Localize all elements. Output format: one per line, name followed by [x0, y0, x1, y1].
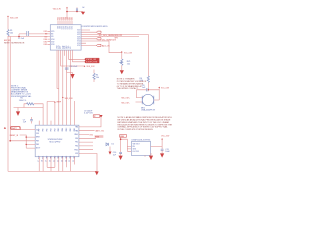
bottom ground rail wire — [8, 170, 97, 172]
svg-text:I2C_SDA/IO23: I2C_SDA/IO23 — [102, 39, 117, 42]
svg-text:TP: TP — [94, 116, 97, 118]
svg-text:LDO 3V3: LDO 3V3 — [133, 151, 139, 153]
svg-text:IO25: IO25 — [51, 31, 54, 33]
svg-text:BUZZER_PWM: BUZZER_PWM — [86, 61, 98, 63]
svg-text:RX2: RX2 — [90, 134, 93, 136]
svg-text:PB3: PB3 — [54, 128, 56, 131]
svg-text:VSS: VSS — [75, 153, 78, 155]
svg-text:VDD_3.3V: VDD_3.3V — [87, 66, 96, 68]
power flag VCC_3.3V (reg out) — [161, 136, 170, 140]
svg-text:PB9: PB9 — [36, 140, 39, 142]
net label STATUS_LED — [85, 58, 100, 61]
wire flag to R1 — [7, 17, 9, 30]
highlighted net PWM — [95, 135, 104, 138]
note 3 text block — [118, 116, 173, 131]
svg-text:17: 17 — [38, 160, 40, 162]
svg-text:IO27: IO27 — [77, 39, 80, 41]
svg-text:C5 1uF: C5 1uF — [18, 38, 25, 40]
U1 top pin names (inside, rotated) — [58, 26, 74, 29]
svg-text:THE WIPER CONTACT.: THE WIPER CONTACT. — [117, 87, 139, 90]
IC U2 (MCU QFP) — [35, 125, 79, 157]
U1 left pin names (inside) — [51, 31, 54, 46]
svg-text:VCC_3.3V: VCC_3.3V — [161, 136, 170, 138]
svg-text:MIC_OUT-: MIC_OUT- — [122, 102, 130, 104]
resistor R1 — [7, 30, 13, 37]
ground (top right of U1) — [81, 12, 85, 15]
U2 top long wires — [39, 101, 74, 125]
svg-text:21: 21 — [54, 160, 56, 162]
svg-text:IO10: IO10 — [62, 45, 64, 48]
svg-text:10k: 10k — [96, 77, 99, 79]
svg-text:IO17: IO17 — [68, 26, 70, 29]
svg-text:RESET SUPERVISOR: RESET SUPERVISOR — [4, 42, 25, 44]
U1 top pin wires — [58, 21, 72, 25]
svg-text:IO23: IO23 — [77, 32, 80, 34]
junction node EN — [18, 36, 20, 38]
svg-text:PB4: PB4 — [50, 128, 52, 131]
power flag VDD_3.3V (mid) — [84, 65, 96, 68]
svg-text:MIC_OUT+: MIC_OUT+ — [122, 97, 131, 99]
svg-text:IO14: IO14 — [77, 41, 80, 43]
svg-text:U1 ESP32-WROOM-32D MOD.: U1 ESP32-WROOM-32D MOD. — [81, 26, 108, 28]
wire R1 to EN node — [8, 34, 48, 37]
svg-text:VCC_3.3V: VCC_3.3V — [124, 52, 133, 54]
left rail B — [10, 37, 35, 141]
svg-text:10uF: 10uF — [165, 151, 170, 153]
svg-text:IO26: IO26 — [77, 36, 80, 38]
U1 left pin wires — [48, 31, 51, 44]
svg-text:1uF: 1uF — [82, 7, 85, 9]
wire sense rail — [14, 104, 44, 108]
svg-text:IO16: IO16 — [70, 26, 72, 29]
svg-text:VREF: VREF — [56, 101, 61, 103]
net label I2C_SCL — [97, 31, 102, 33]
wire VBAT down — [121, 137, 132, 152]
ground (C11) — [160, 153, 164, 157]
svg-text:VDD_3.3V: VDD_3.3V — [10, 18, 19, 20]
left rail A — [7, 37, 9, 172]
svg-text:I2C_SCL_SENSOR/IO22: I2C_SCL_SENSOR/IO22 — [99, 35, 123, 37]
svg-text:IO5: IO5 — [70, 46, 72, 49]
svg-text:IO9: IO9 — [60, 46, 62, 49]
U1 top pin net labels — [58, 16, 74, 20]
svg-text:IO19: IO19 — [64, 26, 66, 29]
ground (U3 gnd pin) — [145, 153, 153, 160]
power flag VDD_3.3V (left EN circuit) — [7, 16, 19, 20]
power flag VCC_3.3V (trimmer) — [121, 51, 133, 54]
capacitor C8 (series, mic rail) — [136, 82, 159, 91]
svg-text:IO22: IO22 — [77, 30, 80, 32]
op IC U1 (ESP32 module) — [50, 25, 81, 50]
svg-text:24: 24 — [65, 160, 67, 162]
svg-text:MCU QFP32: MCU QFP32 — [50, 141, 61, 143]
svg-text:IO11: IO11 — [64, 45, 66, 48]
svg-text:IO33: IO33 — [51, 44, 54, 46]
reg output wire — [151, 140, 163, 150]
svg-text:IO0: IO0 — [51, 36, 54, 38]
svg-text:3V3: 3V3 — [58, 26, 60, 29]
ground (mid bus) — [70, 74, 74, 79]
svg-text:IO13: IO13 — [58, 45, 60, 48]
U1 right pin names (inside) — [77, 30, 80, 47]
microphone MK1 — [141, 94, 155, 111]
U2 right pin wires — [79, 118, 101, 172]
mic left/right lead wires — [136, 90, 160, 102]
svg-text:18: 18 — [42, 160, 44, 162]
junction dots — [9, 11, 149, 145]
U1 bottom pin names (inside, rotated) — [57, 45, 73, 49]
wire to trimmer wiper — [109, 41, 122, 53]
svg-text:PB10: PB10 — [74, 149, 78, 151]
svg-text:25: 25 — [69, 160, 71, 162]
svg-text:UART_TX2: UART_TX2 — [95, 130, 104, 133]
svg-text:U3 AP2112K-3.3TRG1: U3 AP2112K-3.3TRG1 — [131, 138, 150, 141]
svg-text:26: 26 — [73, 160, 75, 162]
net label VBATT (U2 left pin 1) — [11, 127, 21, 130]
U2 bottom pin wires — [39, 157, 74, 172]
svg-text:PWM: PWM — [95, 136, 100, 138]
svg-text:PB1: PB1 — [75, 142, 78, 144]
svg-text:19: 19 — [46, 160, 48, 162]
svg-text:NRST: NRST — [36, 137, 40, 139]
note 1 text block — [11, 85, 32, 98]
power flag (rail A tap) — [4, 127, 6, 129]
power flag VCC_3.3V (mic) — [158, 87, 169, 90]
svg-text:PB6: PB6 — [43, 128, 45, 131]
svg-text:D1: D1 — [112, 144, 114, 146]
U1 right pin wires — [81, 30, 148, 45]
svg-text:PB5: PB5 — [47, 128, 49, 131]
U1 bottom bus wires — [57, 50, 85, 125]
net label VBAT — [120, 135, 127, 138]
svg-text:1uF: 1uF — [142, 87, 146, 89]
svg-text:3V3: 3V3 — [60, 26, 62, 29]
resistor R6 (mic bias) — [140, 76, 150, 82]
svg-text:IO15: IO15 — [72, 17, 74, 21]
resistor R5 — [19, 98, 34, 105]
U2 right pin names (inside) — [74, 126, 78, 156]
svg-text:PC0: PC0 — [39, 156, 41, 159]
svg-text:100k 1%: 100k 1% — [19, 100, 27, 102]
capacitor C1 — [76, 7, 84, 12]
net label I2C_SDA — [97, 38, 117, 42]
svg-text:IO15: IO15 — [72, 26, 74, 29]
svg-text:PC1: PC1 — [43, 156, 45, 159]
U1 left pin net labels — [44, 31, 48, 46]
note 2 text block — [117, 78, 147, 90]
svg-text:VCC_3.3V: VCC_3.3V — [161, 87, 170, 89]
ground (C10) — [119, 156, 123, 160]
svg-text:20: 20 — [50, 160, 52, 162]
U2 left pin wires — [20, 129, 36, 148]
svg-text:1uF: 1uF — [113, 154, 117, 156]
U2 bottom pin names (inside) — [39, 156, 76, 159]
capacitor C5 (series on IO0 line) — [18, 31, 29, 40]
svg-text:CMA-4544PF-W: CMA-4544PF-W — [141, 109, 155, 112]
svg-text:PB2: PB2 — [75, 146, 78, 148]
svg-text:22: 22 — [57, 160, 59, 162]
regulator U3 — [131, 138, 150, 155]
svg-text:IO25: IO25 — [77, 34, 80, 36]
ground (D1) — [109, 147, 112, 155]
svg-text:10k: 10k — [127, 63, 130, 65]
U2 bottom pin numbers — [38, 160, 75, 162]
svg-text:C3 0.1uF: C3 0.1uF — [70, 66, 79, 68]
svg-text:RESET_IN: RESET_IN — [10, 135, 19, 137]
svg-text:IO18: IO18 — [66, 26, 68, 29]
U2 top pin names (inside) — [39, 128, 76, 132]
svg-text:BOOT: BOOT — [36, 148, 40, 150]
capacitor C3 — [65, 66, 78, 74]
wire VDD flag to decoupling rail — [67, 8, 83, 18]
capacitor C11 — [161, 149, 171, 154]
capacitor C7 — [23, 117, 33, 124]
svg-text:0.1uF 16V: 0.1uF 16V — [84, 113, 93, 115]
net label BUZZER_PWM — [85, 61, 100, 64]
wire U1 audio to mic — [147, 34, 149, 76]
svg-text:IO13: IO13 — [77, 43, 80, 45]
svg-text:VBATT: VBATT — [11, 127, 16, 130]
power flag VDD_3.3V (top, above U1) — [53, 7, 68, 11]
svg-text:EN: EN — [133, 146, 135, 148]
U2 value text — [48, 139, 63, 143]
trimmer potentiometer RV1 — [119, 53, 130, 66]
net flag (pin1, to TP) — [99, 115, 102, 118]
ground (trimmer) — [120, 65, 124, 74]
svg-text:VDD_3.3V: VDD_3.3V — [53, 8, 62, 10]
svg-text:EN: EN — [51, 34, 53, 36]
U2 left pin names (inside) — [36, 129, 40, 149]
svg-text:IN THE COMPLETE SYSTEM DESIGN.: IN THE COMPLETE SYSTEM DESIGN. — [118, 129, 154, 131]
svg-text:IO12: IO12 — [77, 45, 80, 47]
ground (sense) — [16, 108, 20, 116]
power flag VDD_3.3V (above U2) — [62, 97, 73, 100]
svg-text:IO21: IO21 — [62, 26, 64, 29]
svg-text:2.2k: 2.2k — [140, 80, 144, 82]
svg-text:VDD_3.3V: VDD_3.3V — [65, 98, 74, 100]
capacitor C10 — [113, 152, 122, 156]
ground (bottom rail) — [95, 171, 99, 175]
svg-text:PB8: PB8 — [36, 144, 39, 146]
svg-text:PB0: PB0 — [75, 138, 78, 140]
net flag VREF — [54, 101, 61, 103]
net label ADC_IN — [97, 44, 111, 47]
diode D1 — [106, 143, 114, 146]
svg-text:IO33: IO33 — [44, 44, 48, 46]
svg-text:IO34: IO34 — [51, 39, 54, 41]
svg-text:VSS: VSS — [36, 133, 39, 135]
resistor R4 — [93, 70, 99, 83]
svg-text:23: 23 — [61, 160, 63, 162]
svg-text:1uF: 1uF — [23, 122, 27, 124]
net flag SWD — [93, 115, 100, 118]
svg-text:IO32: IO32 — [51, 41, 54, 43]
svg-text:VIN VOUT: VIN VOUT — [133, 144, 140, 146]
svg-text:10k: 10k — [10, 32, 13, 34]
